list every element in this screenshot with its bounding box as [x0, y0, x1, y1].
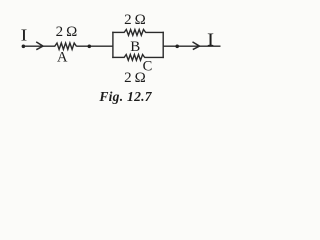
svg-text:B: B	[130, 39, 140, 55]
wire: bottom branch right segment	[144, 56, 164, 58]
wire: left terminal to resistor A	[23, 45, 55, 47]
svg-text:I: I	[207, 30, 214, 50]
wire: parallel loop left vertical	[112, 32, 114, 58]
wire: resistor A to parallel section	[76, 45, 113, 47]
svg-text:2 Ω: 2 Ω	[56, 24, 78, 40]
resistor A (zigzag)	[55, 43, 77, 49]
wire: parallel loop right vertical	[162, 32, 164, 58]
wire: bottom branch left segment	[112, 56, 124, 58]
svg-text:2 Ω: 2 Ω	[124, 70, 146, 86]
resistor B (zigzag, top branch)	[124, 30, 145, 36]
svg-text:I: I	[21, 26, 28, 45]
node: left input terminal dot	[22, 45, 26, 49]
svg-text:2 Ω: 2 Ω	[124, 12, 146, 28]
wire: top branch left segment	[112, 31, 124, 33]
node: junction dot on output wire	[175, 45, 179, 49]
arrow: current direction (left)	[36, 42, 43, 50]
resistor C (zigzag, bottom branch)	[124, 55, 144, 61]
svg-text:A: A	[57, 50, 68, 66]
node: junction dot after resistor A	[88, 45, 92, 49]
wire: top branch right segment	[145, 31, 164, 33]
wire: parallel section to right terminal	[163, 45, 220, 47]
arrow: current direction (right)	[193, 42, 200, 50]
svg-text:Fig. 12.7: Fig. 12.7	[98, 89, 152, 104]
